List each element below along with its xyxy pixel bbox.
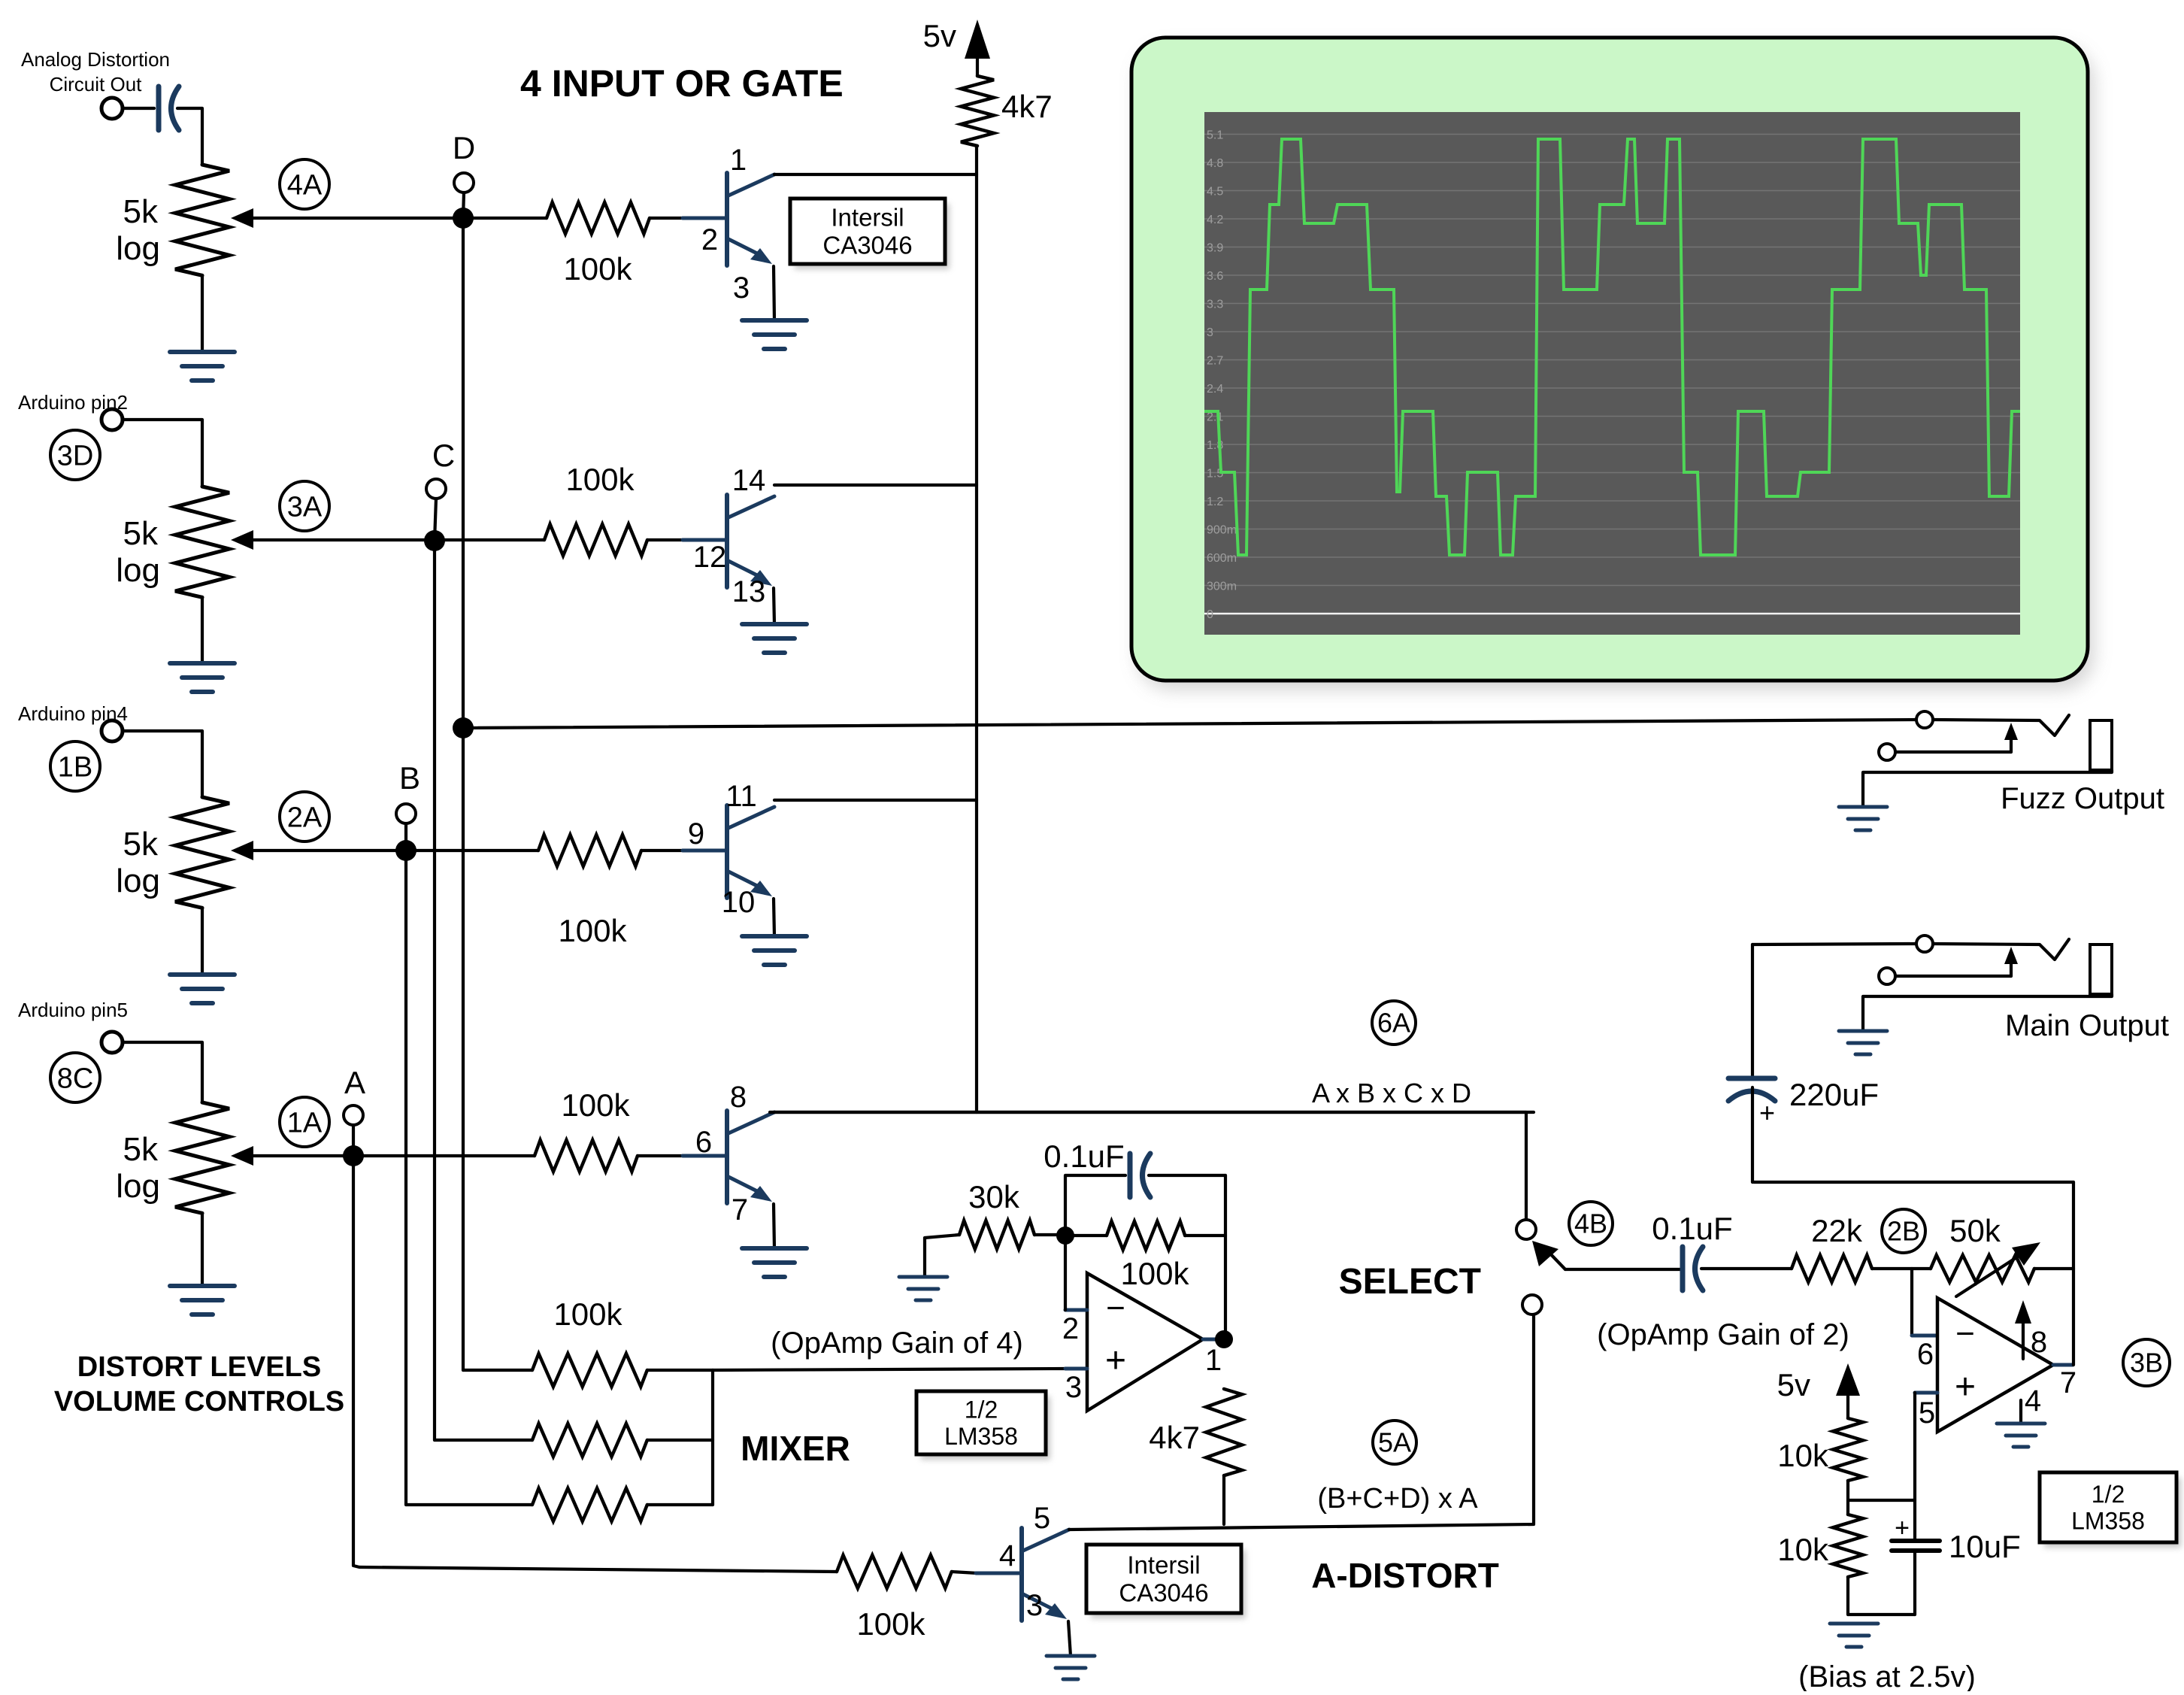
svg-text:5v: 5v [1777, 1367, 1810, 1402]
op-amp U1 1/2 LM358 (mixer) [1087, 1273, 1203, 1411]
svg-text:8: 8 [2031, 1326, 2047, 1359]
wire: row2 to Q2 base resistor [435, 538, 544, 541]
node label 8C [50, 1053, 100, 1102]
svg-text:1B: 1B [58, 751, 92, 783]
resistor R3 100k (base of Q3) [538, 835, 641, 866]
svg-text:4.8: 4.8 [1207, 157, 1223, 170]
svg-text:14: 14 [732, 464, 766, 497]
svg-text:A x B x C x D: A x B x C x D [1312, 1078, 1471, 1108]
svg-text:9: 9 [688, 817, 704, 851]
svg-text:Circuit Out: Circuit Out [50, 73, 143, 96]
svg-text:2.1: 2.1 [1207, 411, 1223, 424]
resistor R6 100k (mixer D) [463, 1369, 532, 1372]
node label 5A [1373, 1421, 1416, 1464]
wire: Q5 collector to select [1069, 1314, 1534, 1530]
svg-text:4k7: 4k7 [1149, 1420, 1200, 1455]
svg-text:1/2: 1/2 [2092, 1481, 2125, 1508]
wire: row4 to Q4 base resistor [353, 1154, 535, 1157]
wire: collector rail [975, 146, 978, 1112]
resistor R15 10k (bias top) [1833, 1418, 1863, 1481]
svg-text:1: 1 [730, 144, 747, 177]
potentiometer VR3 5k log [101, 720, 123, 741]
svg-text:5k: 5k [123, 193, 159, 230]
wire + ground (U2 pin4) [2019, 1400, 2022, 1424]
svg-text:600m: 600m [1207, 552, 1237, 565]
svg-text:LM358: LM358 [2071, 1508, 2145, 1535]
node label 2B [1882, 1209, 1925, 1253]
svg-text:5: 5 [1034, 1502, 1050, 1535]
svg-text:7: 7 [732, 1193, 748, 1227]
transistor Q4 (CA3046) [683, 1154, 725, 1158]
svg-text:2.7: 2.7 [1207, 355, 1223, 368]
switch SELECT top contact [1516, 1220, 1536, 1239]
svg-text:0.1uF: 0.1uF [1044, 1139, 1124, 1174]
svg-text:4.2: 4.2 [1207, 214, 1223, 226]
svg-text:2.4: 2.4 [1207, 383, 1223, 396]
transistor Q1 (CA3046) [683, 217, 725, 220]
svg-text:(Bias at 2.5v): (Bias at 2.5v) [1798, 1660, 1976, 1691]
svg-text:−: − [1106, 1290, 1125, 1327]
wire: U1 inverting input [1064, 1236, 1067, 1310]
svg-text:3B: 3B [2130, 1348, 2163, 1378]
svg-text:10: 10 [722, 886, 756, 919]
box: Intersil CA3046 (top) [795, 204, 950, 269]
svg-text:3: 3 [1065, 1371, 1082, 1404]
svg-text:6A: 6A [1377, 1008, 1410, 1039]
svg-text:3.9: 3.9 [1207, 242, 1223, 255]
svg-text:4: 4 [999, 1539, 1016, 1572]
junction + wire: OR output to Fuzz jack [453, 717, 474, 738]
svg-text:8: 8 [730, 1081, 747, 1114]
scope waveform trace [1204, 139, 2020, 555]
wire: U2 pin5 vertical [1913, 1393, 1916, 1541]
wire + ground (30k to ground) [925, 1235, 959, 1277]
svg-text:3.6: 3.6 [1207, 270, 1223, 283]
svg-text:4 INPUT OR GATE: 4 INPUT OR GATE [520, 62, 844, 105]
capacitor C5 220uF (main output coupling) [1751, 945, 1754, 1078]
svg-text:6: 6 [695, 1126, 712, 1159]
svg-text:2A: 2A [287, 802, 323, 833]
capacitor C_in (analog distortion input) [123, 107, 154, 110]
svg-text:+: + [1105, 1341, 1126, 1381]
svg-text:100k: 100k [558, 913, 627, 948]
wire: U2 feedback/output vertical [2072, 1182, 2075, 1365]
resistor R4 100k (base of Q4) [535, 1140, 638, 1172]
svg-text:log: log [116, 863, 160, 899]
wire: Q2 collector to rail [774, 484, 977, 487]
svg-text:2: 2 [701, 223, 718, 256]
ground (30k) [899, 1275, 947, 1279]
wire: Q4 emitter to ground [774, 1204, 774, 1248]
node label 6A [1372, 1001, 1416, 1045]
box: Intersil CA3046 (bottom) [1091, 1550, 1246, 1618]
svg-text:Intersil: Intersil [831, 204, 904, 232]
ground (bias) [1830, 1622, 1878, 1626]
svg-text:3D: 3D [57, 440, 94, 472]
wire: Q2 emitter to ground [774, 588, 774, 624]
svg-text:3A: 3A [287, 491, 323, 523]
wire: row3 to Q3 base resistor [406, 849, 538, 852]
potentiometer VR1 5k log [201, 163, 204, 166]
resistor R12 100k (Q5 base) [837, 1555, 952, 1588]
capacitor C3 0.1uF (output coupling) [1680, 1247, 1686, 1290]
svg-text:1A: 1A [287, 1107, 323, 1139]
wire: output node to 220uF [1754, 1181, 2073, 1184]
svg-text:22k: 22k [1811, 1213, 1863, 1248]
svg-text:13: 13 [732, 575, 766, 608]
wire: row1 to Q1 base resistor [463, 217, 547, 220]
potentiometer R14 50k (gain) [1931, 1255, 2034, 1282]
svg-text:log: log [116, 552, 160, 589]
node label 3D [50, 430, 100, 480]
svg-text:SELECT: SELECT [1339, 1262, 1481, 1302]
svg-text:2B: 2B [1887, 1216, 1920, 1247]
svg-text:(OpAmp Gain of 2): (OpAmp Gain of 2) [1597, 1318, 1849, 1351]
svg-text:Intersil: Intersil [1127, 1551, 1200, 1579]
box: 1/2 LM358 (U2) [2044, 1478, 2181, 1548]
svg-text:(B+C+D) x A: (B+C+D) x A [1317, 1483, 1478, 1515]
svg-text:4k7: 4k7 [1001, 89, 1053, 124]
svg-text:100k: 100k [565, 462, 635, 497]
svg-text:4.5: 4.5 [1207, 186, 1223, 199]
svg-text:300m: 300m [1207, 581, 1237, 593]
svg-text:Arduino pin5: Arduino pin5 [18, 999, 128, 1021]
wire: bias node [1846, 1481, 1849, 1515]
wire: Q4 collector to rail [774, 1111, 1534, 1114]
wire: Q3 emitter to ground [774, 899, 774, 936]
ground (Q4 emitter) [742, 1246, 807, 1251]
svg-text:220uF: 220uF [1789, 1077, 1879, 1112]
svg-text:CA3046: CA3046 [1119, 1579, 1208, 1607]
svg-text:12: 12 [693, 541, 727, 574]
resistor R16 10k (bias bottom) [1833, 1515, 1863, 1577]
svg-text:A-DISTORT: A-DISTORT [1311, 1556, 1499, 1595]
ground (Q3 emitter) [742, 934, 807, 938]
box: 1/2 LM358 (U1) [921, 1396, 1050, 1460]
svg-text:3: 3 [1207, 326, 1213, 339]
svg-text:5v: 5v [923, 18, 956, 53]
svg-text:50k: 50k [1949, 1213, 2001, 1248]
U2 pin8 power arrow [2022, 1317, 2025, 1359]
resistor R9 30k [959, 1220, 1034, 1249]
jack: Main Output [1752, 944, 1916, 945]
pot VR1 terminal (from cap) [101, 98, 123, 119]
svg-text:11: 11 [725, 780, 757, 813]
svg-text:Analog Distortion: Analog Distortion [21, 48, 170, 71]
wire: B bus vertical [395, 840, 417, 861]
resistor R10 100k (U1 feedback) [1065, 1234, 1107, 1237]
wire: bias bottom to ground [1846, 1577, 1849, 1615]
wire: 22k/50k node to U2 inverting input [1910, 1269, 1913, 1336]
ground (U2 pin4) [1997, 1422, 2045, 1426]
resistor R13 22k [1792, 1255, 1872, 1282]
svg-text:Fuzz Output: Fuzz Output [2001, 782, 2164, 815]
wire: Q1 emitter to ground [774, 266, 774, 320]
wiper arrow + node label 3A [231, 530, 253, 550]
svg-text:VOLUME CONTROLS: VOLUME CONTROLS [54, 1386, 344, 1418]
oscilloscope screenshot panel [1137, 47, 2094, 690]
svg-text:Main Output: Main Output [2005, 1009, 2169, 1042]
ground (pot VR4) [170, 1284, 235, 1288]
wire: Q1 collector to rail [774, 173, 977, 176]
transistor Q5 (CA3046 A-distort) [976, 1572, 1020, 1575]
capacitor C2 0.1uF (U1 feedback) [1065, 1175, 1125, 1236]
svg-text:MIXER: MIXER [741, 1429, 850, 1468]
resistor R8 100k (mixer B) [406, 1503, 532, 1506]
svg-text:0: 0 [1207, 608, 1213, 621]
svg-text:0.1uF: 0.1uF [1652, 1211, 1732, 1246]
transistor Q2 (CA3046) [683, 538, 725, 542]
svg-text:4: 4 [2025, 1384, 2041, 1418]
switch SELECT bottom contact [1522, 1295, 1542, 1314]
svg-text:100k: 100k [553, 1296, 622, 1332]
svg-text:10uF: 10uF [1949, 1529, 2021, 1564]
svg-text:100k: 100k [561, 1087, 630, 1123]
svg-text:DISTORT LEVELS: DISTORT LEVELS [77, 1351, 321, 1383]
svg-text:10k: 10k [1777, 1532, 1829, 1567]
svg-text:LM358: LM358 [944, 1423, 1018, 1450]
potentiometer VR2 5k log [101, 409, 123, 430]
node label 1B [50, 741, 100, 791]
svg-text:1/2: 1/2 [965, 1396, 998, 1423]
svg-text:CA3046: CA3046 [822, 232, 912, 259]
svg-text:100k: 100k [1120, 1256, 1189, 1291]
svg-text:(OpAmp Gain of 4): (OpAmp Gain of 4) [771, 1327, 1023, 1360]
potentiometer VR4 5k log [101, 1032, 123, 1053]
op-amp U2 1/2 LM358 (output) [1937, 1298, 2053, 1432]
svg-text:4A: 4A [287, 169, 323, 201]
svg-text:5k: 5k [123, 515, 159, 552]
wire: A bus vertical down to A-distort row [343, 1145, 364, 1166]
ground (Q2 emitter) [742, 622, 807, 626]
wire: mixer summing node [711, 1370, 714, 1505]
svg-text:5.1: 5.1 [1207, 129, 1223, 142]
node label 4B [1569, 1202, 1613, 1245]
svg-text:3.3: 3.3 [1207, 299, 1223, 311]
svg-text:B: B [399, 760, 420, 796]
resistor R11 4k7 (A-distort collector load) [1206, 1389, 1242, 1475]
svg-text:10k: 10k [1777, 1438, 1829, 1473]
wire: D bus vertical [453, 208, 474, 229]
ground (pot VR2) [170, 661, 235, 666]
wire: Q5 emitter to ground [1068, 1621, 1071, 1656]
svg-text:3: 3 [733, 271, 750, 305]
wiper arrow + node label 2A [231, 841, 253, 860]
svg-text:30k: 30k [968, 1179, 1020, 1214]
ground (Q5) [1047, 1654, 1095, 1658]
wiper arrow + node label 4A [231, 208, 253, 228]
svg-text:5k: 5k [123, 1131, 159, 1168]
svg-text:6: 6 [1917, 1338, 1934, 1371]
scope gridlines and axis labels [1204, 134, 2020, 135]
ground (Q1 emitter) [742, 318, 807, 323]
svg-text:100k: 100k [563, 251, 632, 287]
svg-text:+: + [1895, 1514, 1910, 1542]
node label 3B [2123, 1339, 2170, 1386]
svg-text:A: A [344, 1065, 365, 1100]
svg-text:+: + [1955, 1367, 1976, 1407]
svg-text:5k: 5k [123, 826, 159, 863]
ground (pot VR3) [170, 972, 235, 977]
resistor R2 100k (base of Q2) [544, 524, 647, 556]
wire: U1 output node [1224, 1175, 1227, 1339]
svg-text:1.2: 1.2 [1207, 496, 1223, 508]
ground (pot VR1) [170, 350, 235, 354]
wire: Q3 collector to rail [774, 799, 977, 802]
transistor Q3 (CA3046) [683, 849, 725, 853]
capacitor C4 10uF (bias) [1892, 1539, 1940, 1543]
svg-text:8C: 8C [57, 1063, 94, 1094]
wiper arrow + node label 1A [231, 1146, 253, 1166]
svg-text:900m: 900m [1207, 524, 1237, 537]
jack: Fuzz Output [1916, 711, 1933, 728]
svg-text:−: − [1955, 1315, 1975, 1352]
svg-text:3: 3 [1026, 1589, 1043, 1622]
resistor R1 100k (base of Q1) [547, 202, 650, 234]
svg-text:7: 7 [2060, 1366, 2076, 1399]
wire: OR output to select top contact [770, 1112, 1526, 1219]
svg-text:D: D [453, 130, 475, 165]
svg-text:5A: 5A [1378, 1427, 1411, 1458]
switch SELECT pole arm [1547, 1251, 1565, 1269]
svg-text:100k: 100k [856, 1606, 925, 1642]
svg-text:1: 1 [1205, 1344, 1222, 1377]
svg-text:2: 2 [1062, 1312, 1079, 1345]
resistor R7 100k (mixer C) [435, 1439, 532, 1442]
svg-text:C: C [432, 438, 455, 473]
svg-text:4B: 4B [1574, 1208, 1607, 1239]
wire: C bus vertical [424, 530, 445, 551]
svg-text:+: + [1759, 1097, 1775, 1128]
svg-text:log: log [116, 230, 160, 267]
svg-text:log: log [116, 1168, 160, 1205]
resistor R5 4k7 (pull-up) [961, 76, 994, 146]
svg-text:5: 5 [1919, 1396, 1935, 1430]
